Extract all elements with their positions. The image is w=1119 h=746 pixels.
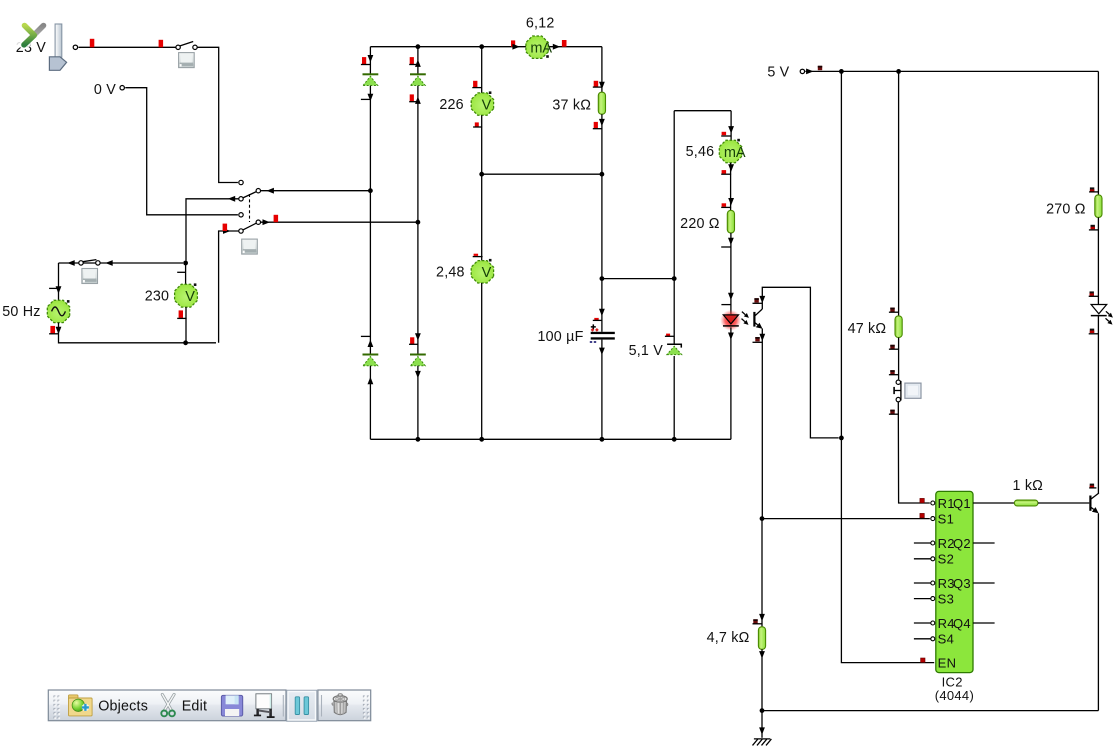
wire to diode D4 bbox=[417, 222, 419, 353]
node 5V / EN branch bbox=[839, 69, 844, 74]
node top rail / V2 bbox=[479, 44, 484, 49]
terminal 23 V bbox=[73, 45, 77, 49]
push button icon SW1 bbox=[179, 53, 195, 68]
IC2 pin S4 stub bbox=[914, 638, 931, 640]
wire voltmeter 2,48 to bottom rail bbox=[481, 283, 483, 439]
wire top rail to resistor 37k bbox=[601, 47, 603, 92]
LED D6 emission arrows toward phototransistor bbox=[742, 312, 745, 315]
wire source bottom to rail bbox=[59, 323, 217, 343]
current marker bbox=[920, 498, 924, 502]
IC2 pin circle R3 bbox=[931, 581, 935, 585]
AC source 50 Hz bbox=[47, 300, 69, 322]
node 37k bottom bbox=[600, 172, 605, 177]
toolbar icon folder Objects bbox=[69, 695, 93, 716]
wire down to AC source bbox=[58, 263, 60, 300]
wire node to zener bbox=[673, 279, 675, 345]
node bottom rail V3 bbox=[479, 437, 484, 442]
IC2 pin R2 stub bbox=[914, 542, 931, 544]
current marker bbox=[594, 318, 598, 320]
wire ammeter to 220R bbox=[730, 163, 732, 211]
wire D2 to node bbox=[417, 86, 419, 223]
toolbar grip right bbox=[363, 696, 370, 720]
switch SW1 (open) bbox=[176, 45, 180, 49]
diode D4 bbox=[410, 354, 426, 356]
transistor Q1 (NPN) bbox=[1089, 496, 1091, 511]
wire emitter to S1 pin bbox=[762, 518, 930, 520]
wire phototransistor collector to 5V net bbox=[762, 287, 838, 438]
push button icon SW3 bbox=[82, 269, 98, 284]
IC2 pin Q3 stub bbox=[973, 582, 995, 584]
DPDT switch SW2 contacts bbox=[239, 180, 243, 184]
capacitor C1 100 uF polarity plus bbox=[591, 324, 596, 329]
wire LED to bottom rail bbox=[730, 327, 732, 439]
ammeter A2 5,46 mA bbox=[719, 140, 742, 163]
wire bottom rail bbox=[370, 438, 731, 440]
diode D2 bbox=[410, 73, 426, 75]
node 230V top junction bbox=[183, 261, 188, 266]
current marker bbox=[666, 334, 670, 337]
current marker bbox=[410, 337, 414, 344]
wire to ammeter 5,46 bbox=[730, 111, 732, 141]
IC2 pin circle R1 bbox=[931, 501, 935, 505]
wire 220R to LED bbox=[730, 233, 732, 314]
optocoupler phototransistor U1 bbox=[753, 312, 755, 327]
wire top rail to D2 bbox=[417, 47, 419, 75]
current marker bbox=[474, 254, 479, 256]
IC2 pin Q4 stub bbox=[973, 622, 995, 624]
current marker bbox=[362, 57, 366, 64]
toolbar panel right bbox=[318, 690, 371, 721]
wire 0V terminal to DPDT contact c3 bbox=[125, 88, 238, 215]
current marker bbox=[410, 94, 414, 101]
voltage probe arrow icon bbox=[49, 24, 66, 70]
current marker bbox=[722, 203, 727, 207]
wire DPDT pole2 to bridge right node bbox=[261, 221, 418, 223]
push button icon SW4 bbox=[905, 383, 921, 398]
wire D1 to node bbox=[369, 86, 371, 191]
wire down to voltmeter 2,48 bbox=[481, 174, 483, 260]
LED D6 (lit, red glow) bbox=[720, 310, 741, 331]
IC2 pin circle S3 bbox=[931, 597, 935, 601]
resistor 270 Ohm bbox=[1095, 195, 1102, 218]
wire SW4 down to R1 pin bbox=[898, 402, 930, 503]
current marker bbox=[722, 132, 727, 135]
IC2 pin R3 stub bbox=[914, 582, 931, 584]
node bottom rail C1 bbox=[600, 437, 605, 442]
current marker bbox=[50, 326, 55, 334]
wire voltmeter 226 down bbox=[481, 115, 483, 174]
current marker bbox=[562, 40, 567, 47]
IC2 pin circle R4 bbox=[931, 621, 935, 625]
node bridge left mid bbox=[368, 188, 373, 193]
IC2 pin R4 stub bbox=[914, 622, 931, 624]
wire 270R to LED D7 bbox=[1097, 217, 1099, 304]
current marker bbox=[274, 215, 279, 222]
wire 5V rail bbox=[806, 70, 1099, 72]
wire down to cap node bbox=[601, 174, 603, 278]
node top rail / D2 bbox=[416, 44, 421, 49]
app cursor icon (green/gray X) bbox=[21, 26, 44, 45]
current marker bbox=[90, 39, 95, 48]
diode D3 bbox=[363, 354, 379, 356]
wire zener branch top bbox=[674, 110, 731, 112]
IC2 pin circle S4 bbox=[931, 637, 935, 641]
wire phototransistor emitter down bbox=[761, 329, 763, 519]
node collector junction bbox=[839, 436, 844, 441]
resistor 1 kOhm bbox=[1014, 500, 1038, 506]
wire 5V to 47k bbox=[898, 71, 900, 316]
voltmeter V2 226 bbox=[471, 93, 493, 115]
wire 47k to switch SW4 bbox=[898, 338, 900, 380]
wire to diode D1 bbox=[369, 47, 371, 75]
svg-text:Edit: Edit bbox=[182, 698, 207, 714]
toolbar icon save floppy bbox=[221, 695, 242, 716]
toolbar icon trash bbox=[332, 694, 348, 715]
LED D7 emission arrows bbox=[1106, 311, 1109, 314]
push button icon SW2 bbox=[242, 239, 258, 254]
wire to voltmeter 230 bbox=[185, 263, 187, 285]
node bottom-left junction bbox=[183, 340, 188, 345]
wire 4,7k to ground rail bbox=[761, 649, 763, 710]
wire DPDT c4 down to bottom-left rail bbox=[219, 231, 239, 343]
wire D3 to bottom rail bbox=[369, 366, 371, 440]
wire top rail bbox=[370, 46, 602, 48]
zener diode D5 5,1 V bbox=[667, 344, 681, 347]
IC2 pin S3 stub bbox=[914, 598, 931, 600]
wire top rail to voltmeter 226 bbox=[481, 47, 483, 93]
wire D4 to bottom rail bbox=[417, 366, 419, 440]
capacitor C1 plates bbox=[591, 332, 615, 334]
switch SW4 (open, vertical push-button) bbox=[896, 380, 900, 384]
wire capacitor to bottom rail bbox=[601, 340, 603, 440]
LED D7 (off) bbox=[1091, 305, 1107, 314]
wire 23V terminal to switch SW1 bbox=[79, 46, 177, 48]
current marker bbox=[475, 122, 479, 126]
wire 1k to transistor base bbox=[1038, 502, 1089, 504]
DPDT arm 1 bbox=[243, 192, 257, 198]
terminal 0 V bbox=[120, 86, 124, 90]
current marker bbox=[159, 40, 164, 48]
DPDT pole circles bbox=[256, 189, 260, 193]
wire voltmeter 230 to rail bbox=[185, 307, 187, 343]
voltmeter V1 230 bbox=[175, 284, 198, 307]
wire source top rail bbox=[59, 262, 184, 264]
IC2 pin S2 stub bbox=[914, 558, 931, 560]
wire node to capacitor bbox=[601, 279, 603, 332]
wire zener to bottom rail bbox=[673, 356, 675, 439]
resistor 37 kOhm bbox=[598, 92, 605, 114]
svg-text:Objects: Objects bbox=[98, 698, 148, 714]
wire zener branch vertical bbox=[673, 111, 675, 279]
DPDT mechanical link (dashed) bbox=[249, 194, 251, 222]
toolbar icon whiteboard bbox=[254, 694, 275, 718]
toolbar separator bbox=[282, 695, 284, 717]
wire SW1 to DPDT contact c1 bbox=[197, 47, 238, 182]
wire V2 node to R1 node bbox=[482, 173, 602, 175]
switch SW3 (closed) bbox=[79, 261, 83, 265]
IC2 pin Q2 stub bbox=[973, 542, 995, 544]
current marker bbox=[179, 310, 183, 318]
current marker bbox=[511, 40, 515, 46]
node zener top bbox=[672, 276, 677, 281]
wire bottom ground rail bbox=[762, 710, 1098, 712]
ammeter A1 6,12 mA bbox=[526, 36, 548, 58]
node bottom rail D4 bbox=[416, 437, 421, 442]
resistor 4,7 kOhm bbox=[758, 627, 765, 650]
IC U2 (IC2 4044) body bbox=[936, 491, 973, 672]
resistor 220 Ohm bbox=[727, 210, 734, 233]
toolbar icon scissors Edit bbox=[161, 694, 175, 716]
wire DPDT pole1 to bridge left node bbox=[261, 190, 371, 192]
DPDT arm 2 bbox=[243, 223, 257, 230]
diode D1 bbox=[363, 73, 379, 75]
toolbar grip left bbox=[54, 696, 61, 720]
current marker bbox=[410, 57, 414, 64]
current marker bbox=[920, 513, 924, 517]
capacitor C1 minus mark bbox=[590, 341, 596, 343]
IC2 pin circle R2 bbox=[931, 541, 935, 545]
current marker bbox=[594, 81, 599, 87]
IC2 pin circle S2 bbox=[931, 557, 935, 561]
current marker bbox=[223, 224, 228, 231]
IC2 pin circle S1 bbox=[931, 517, 935, 521]
wire 37k down bbox=[601, 114, 603, 174]
resistor 47 kOhm bbox=[895, 316, 902, 338]
node 5V / 47k branch bbox=[896, 69, 901, 74]
toolbar pause panel bbox=[287, 690, 317, 721]
wire Q1 to 1k resistor bbox=[973, 502, 1014, 504]
wire transistor emitter to ground rail bbox=[1097, 513, 1099, 710]
node cap top bbox=[600, 276, 605, 281]
wire LED D7 to transistor collector bbox=[1097, 316, 1099, 494]
wire to diode D3 bbox=[369, 191, 371, 354]
terminal 5 V bbox=[800, 69, 804, 73]
wire to ground bbox=[761, 711, 763, 738]
ground bbox=[753, 739, 772, 746]
node emitter / S1 bbox=[760, 516, 765, 521]
pause bars bbox=[295, 697, 299, 715]
current marker bbox=[594, 122, 598, 129]
wire 5V to EN pin bbox=[841, 71, 934, 662]
wire 5V rail down to 270R bbox=[1097, 71, 1099, 194]
node bridge right mid bbox=[416, 220, 421, 225]
node V2 bottom bbox=[479, 172, 484, 177]
wire down to 4,7k bbox=[761, 519, 763, 627]
node bottom rail D5 bbox=[672, 437, 677, 442]
wire cap node to zener node bbox=[602, 278, 674, 280]
toolbar panel left bbox=[48, 690, 286, 721]
wire DPDT c2 to 230V node bbox=[186, 199, 239, 261]
voltmeter V3 2,48 bbox=[471, 261, 493, 283]
current marker bbox=[722, 170, 727, 174]
current marker bbox=[473, 81, 477, 87]
node ground rail bbox=[760, 708, 765, 713]
